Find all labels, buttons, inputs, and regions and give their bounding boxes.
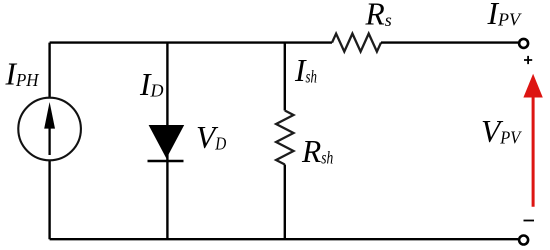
- svg-text:IPH: IPH: [5, 57, 40, 92]
- svg-text:Rs: Rs: [365, 0, 392, 32]
- svg-text:Ish: Ish: [294, 53, 317, 88]
- svg-text:ID: ID: [139, 67, 164, 102]
- svg-text:IPV: IPV: [487, 0, 522, 31]
- wire bottom bus: [50, 238, 518, 240]
- svg-text:VD: VD: [196, 120, 226, 155]
- positive output terminal: [519, 39, 528, 48]
- wire top bus (node between Iph, D, Rsh and Rs): [50, 41, 332, 43]
- svg-text:VPV: VPV: [481, 114, 522, 149]
- wire diode branch: [166, 43, 168, 240]
- arrow V_PV (output voltage): [523, 74, 542, 207]
- plus sign: [524, 56, 532, 64]
- current source I_PH: [18, 98, 81, 161]
- resistor R_sh: [276, 111, 293, 165]
- wire shunt branch bottom: [284, 165, 286, 240]
- wire shunt branch top: [284, 43, 286, 111]
- resistor R_s: [332, 34, 381, 52]
- diode D: [148, 125, 185, 161]
- svg-text:Rsh: Rsh: [301, 134, 333, 169]
- wire Rs to positive terminal: [381, 41, 518, 43]
- wire left branch: [48, 43, 50, 240]
- negative output terminal: [519, 236, 528, 245]
- minus sign: [524, 220, 535, 222]
